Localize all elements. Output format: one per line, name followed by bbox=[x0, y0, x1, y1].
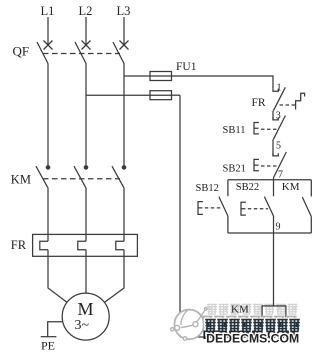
breaker QF pole 1 bbox=[37, 41, 53, 64]
SB21 actuator dashed link bbox=[261, 165, 277, 167]
label L2 bbox=[79, 4, 93, 18]
svg-text:FR: FR bbox=[252, 97, 266, 109]
svg-text:L2: L2 bbox=[79, 4, 93, 18]
svg-text:PE: PE bbox=[41, 339, 55, 353]
motor label M bbox=[78, 299, 94, 319]
wire L1 incoming bbox=[47, 17, 49, 46]
wire phase C KM to FR bbox=[123, 187, 125, 241]
label SB11 bbox=[223, 125, 246, 136]
svg-text:QF: QF bbox=[13, 44, 30, 59]
watermark chinese text faint layer bbox=[207, 304, 298, 315]
FR heater element phase A bbox=[40, 241, 48, 250]
contactor KM main contact pole 1 bbox=[36, 166, 50, 188]
svg-text:FU1: FU1 bbox=[176, 61, 197, 73]
wire phase C FR to motor bbox=[104, 250, 124, 303]
label KM coil bbox=[231, 304, 249, 316]
label QF bbox=[13, 44, 30, 59]
wire parallel branch bottom bus bbox=[228, 232, 311, 234]
wire fuse2 through bbox=[150, 94, 172, 96]
wire left control rail N bbox=[179, 95, 181, 337]
motor M circle bbox=[62, 293, 109, 340]
svg-text:3~: 3~ bbox=[75, 318, 90, 333]
ground PE bar bbox=[41, 336, 57, 338]
wire phase C QF to KM bbox=[123, 64, 125, 166]
fuse FU1 element 1 bbox=[150, 72, 172, 81]
breaker QF pole 3 bbox=[113, 41, 129, 64]
node 3 bbox=[276, 110, 281, 121]
contactor KM main contact pole 2 bbox=[74, 166, 88, 188]
wire phase B FR to motor bbox=[85, 250, 87, 293]
wire bottom return to left rail bbox=[180, 336, 274, 338]
svg-text:SB11: SB11 bbox=[223, 125, 246, 136]
label PE bbox=[41, 339, 55, 353]
svg-text:KM: KM bbox=[282, 181, 300, 193]
wire phase B KM to FR bbox=[85, 187, 87, 241]
svg-text:SB21: SB21 bbox=[223, 164, 246, 175]
pushbutton SB21 actuator E bbox=[254, 159, 259, 170]
contactor KM main contact pole 3 bbox=[112, 166, 126, 188]
watermark chinese text dark layer bbox=[205, 319, 300, 332]
FR heater element phase C bbox=[116, 241, 124, 250]
pushbutton SB11 NC contact bbox=[273, 116, 285, 140]
pushbutton SB22 actuator E bbox=[241, 202, 246, 215]
label FU1 bbox=[176, 61, 197, 73]
pushbutton SB22 NO contact branch bbox=[264, 180, 273, 233]
svg-text:SB22: SB22 bbox=[236, 182, 259, 193]
label L1 bbox=[41, 4, 55, 18]
contactor KM interlock dashed link bbox=[43, 178, 120, 180]
wire control tap from L3 to FU1 bbox=[124, 75, 150, 77]
label FR (control) bbox=[252, 97, 266, 109]
wire node3 bbox=[272, 111, 274, 120]
breaker QF interlock dashed link bbox=[43, 53, 120, 55]
svg-text:9: 9 bbox=[276, 222, 281, 233]
label SB22 bbox=[236, 182, 259, 193]
watermark chinese text emboss layer bbox=[202, 316, 297, 329]
label SB12 bbox=[196, 183, 219, 194]
wire coil to bottom return bbox=[273, 322, 275, 337]
label L3 bbox=[117, 4, 131, 18]
watermark logo circle bbox=[174, 310, 204, 340]
wire L2 incoming bbox=[85, 17, 87, 46]
wire control tap from L2 to fuse 2 bbox=[86, 94, 150, 96]
wire SB21 to parallel branch top bbox=[273, 178, 275, 180]
wire node9 to coil bbox=[273, 233, 275, 306]
FR heater element phase B bbox=[78, 241, 86, 250]
svg-text:L1: L1 bbox=[41, 4, 55, 18]
wire fuse2 to left control rail bbox=[172, 94, 181, 96]
svg-text:SB12: SB12 bbox=[196, 183, 219, 194]
wire parallel branch top bus bbox=[228, 179, 311, 181]
SB11 actuator dashed link bbox=[261, 128, 277, 130]
svg-text:7: 7 bbox=[278, 170, 283, 181]
SB12 actuator dashed link bbox=[205, 207, 223, 209]
svg-text:M: M bbox=[78, 299, 94, 319]
breaker QF pole 2 bbox=[75, 41, 91, 64]
node 5 bbox=[276, 140, 281, 151]
overload relay FR box bbox=[33, 234, 138, 256]
label KM (main contacts) bbox=[11, 173, 31, 187]
node 7 bbox=[278, 170, 283, 181]
svg-text:KM: KM bbox=[11, 173, 31, 187]
pushbutton SB12 NO contact branch bbox=[219, 180, 228, 233]
wire L3 incoming bbox=[123, 17, 125, 46]
label FR (overload) bbox=[11, 238, 27, 252]
SB22 actuator dashed link bbox=[248, 208, 268, 210]
wire phase A QF to KM bbox=[47, 64, 49, 166]
wire fuse1 to control chain corner bbox=[172, 76, 274, 89]
watermark logo inner pattern bbox=[171, 308, 207, 341]
pushbutton SB12 actuator E bbox=[198, 202, 203, 215]
fuse FU1 element 2 bbox=[150, 91, 172, 100]
svg-text:5: 5 bbox=[276, 140, 281, 151]
wire PE from motor bbox=[48, 322, 63, 337]
svg-text:DEDECMS.COM: DEDECMS.COM bbox=[206, 333, 299, 345]
wire phase B QF to KM bbox=[85, 64, 87, 166]
coil KM bbox=[262, 306, 286, 322]
label SB21 bbox=[223, 164, 246, 175]
node 9 bbox=[276, 222, 281, 233]
pushbutton SB11 actuator E bbox=[254, 123, 259, 134]
watermark chinese text white halo bbox=[205, 319, 300, 332]
svg-text:KM: KM bbox=[231, 304, 249, 316]
motor label 3~ bbox=[75, 318, 90, 333]
FR trip dashed link bbox=[280, 104, 296, 106]
wire phase A FR to motor bbox=[48, 250, 67, 303]
wire phase A KM to FR bbox=[47, 187, 49, 241]
contact KM NO auxiliary branch bbox=[302, 180, 311, 233]
contact FR NC (control) bbox=[273, 87, 285, 110]
svg-text:L3: L3 bbox=[117, 4, 131, 18]
FR trip actuator symbol bbox=[296, 93, 305, 109]
pushbutton SB21 NC contact bbox=[273, 152, 286, 178]
node 1 bbox=[277, 83, 282, 94]
label KM auxiliary contact bbox=[282, 181, 300, 193]
svg-text:FR: FR bbox=[11, 238, 27, 252]
wire fuse1 through bbox=[150, 75, 172, 77]
wire node5 bbox=[272, 139, 274, 156]
